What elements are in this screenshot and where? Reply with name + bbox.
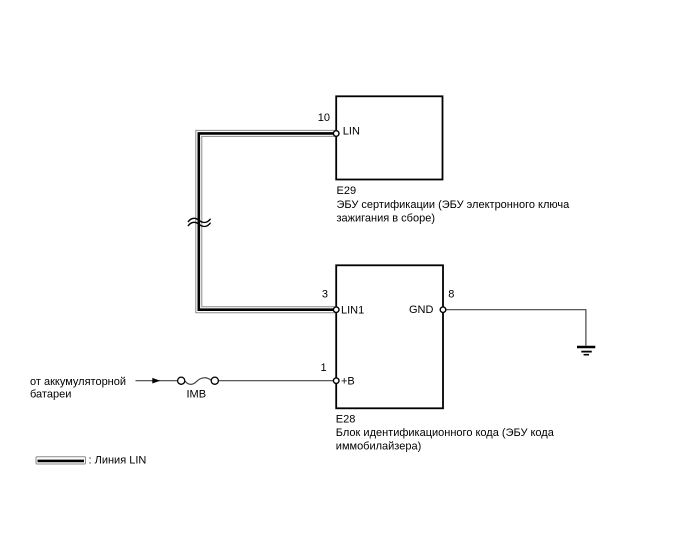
svg-text:GND: GND (409, 304, 434, 316)
svg-text:1: 1 (320, 362, 326, 374)
svg-text:: Линия LIN: : Линия LIN (89, 455, 147, 467)
svg-text:IMB: IMB (187, 389, 207, 401)
svg-text:зажигания в сборе): зажигания в сборе) (337, 212, 436, 224)
svg-text:+B: +B (341, 375, 355, 387)
svg-text:Блок идентификационного кода (: Блок идентификационного кода (ЭБУ кода (336, 427, 555, 439)
svg-text:10: 10 (318, 112, 330, 124)
svg-text:батареи: батареи (30, 389, 71, 401)
svg-text:E29: E29 (337, 185, 357, 197)
svg-text:3: 3 (322, 289, 328, 301)
svg-text:иммобилайзера): иммобилайзера) (336, 441, 421, 453)
svg-text:ЭБУ сертификации (ЭБУ электрон: ЭБУ сертификации (ЭБУ электронного ключа (337, 199, 571, 211)
svg-text:LIN1: LIN1 (341, 304, 364, 316)
svg-text:8: 8 (448, 289, 454, 301)
svg-text:от аккумуляторной: от аккумуляторной (30, 376, 126, 388)
svg-text:LIN: LIN (343, 126, 360, 138)
svg-text:E28: E28 (336, 413, 356, 425)
